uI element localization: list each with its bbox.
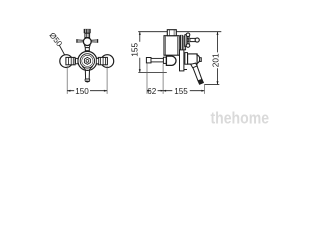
top knurled tab [84,29,91,38]
leader line to left flange [60,46,65,56]
bonnet ring stack right of body [180,35,186,51]
top extension line [138,31,221,33]
valve body (side) [164,36,179,56]
right union nut [96,57,107,64]
bottom ball [186,44,190,48]
svg-text:150: 150 [75,87,89,96]
front arm ball [195,38,199,42]
svg-text:155: 155 [130,42,140,56]
union elbow [166,56,176,65]
lever shaft [85,69,89,79]
cross handle left arm [76,39,84,43]
bottom extension of 201 dim [204,84,219,86]
svg-text:201: 201 [210,53,220,67]
cross handle edge-on : disc [185,35,187,47]
pipe washer [163,57,166,63]
svg-text:Ø50: Ø50 [47,31,64,49]
label Ø50 (rotated) [47,31,64,49]
front arm [190,38,196,41]
vertical dim 201 [217,32,219,85]
plate foot [184,69,187,71]
extension line from lever tip [203,85,205,94]
tab inner lines [170,30,175,36]
extension line from body/washer [162,64,164,94]
bottom extension of 155 dim [138,71,167,73]
vertical dim 155 [139,32,141,73]
extension line from pipe nut [146,63,148,94]
lever end cap [85,79,90,82]
handle neck / stem [84,45,90,51]
svg-text:62: 62 [147,87,157,96]
lever (side view, angled) [191,63,204,84]
center hex nut [84,57,90,64]
svg-text:155: 155 [174,87,188,96]
crossing spokes [187,36,190,44]
svg-text:thehome: thehome [211,109,270,128]
top tab on body [167,30,176,36]
right extension line [106,66,108,94]
washer behind piston [185,53,188,65]
inner ring [80,54,94,68]
cover plate below body [180,50,184,71]
body cap piston (toward viewer) [188,54,198,64]
piston nub [200,58,202,62]
main body escutcheon circle [78,51,97,70]
bottom dim 62 [147,90,163,92]
bottom dim 155 [163,90,204,92]
wall pipe shaft [151,58,164,62]
left extension line [66,66,68,94]
lever shoulders [82,66,92,69]
right wall flange circle [101,55,114,68]
dimension line 150 [67,90,107,92]
wall pipe nut [146,58,151,63]
top ball [186,33,190,37]
center dot [86,60,89,63]
cross handle right arm [91,39,98,43]
body inner edge lines [166,36,178,55]
second inner ring [82,55,93,66]
piston rounded cap [196,55,199,64]
left wall flange circle [60,55,73,68]
left union nut [66,57,78,64]
cross handle hub [83,38,91,46]
